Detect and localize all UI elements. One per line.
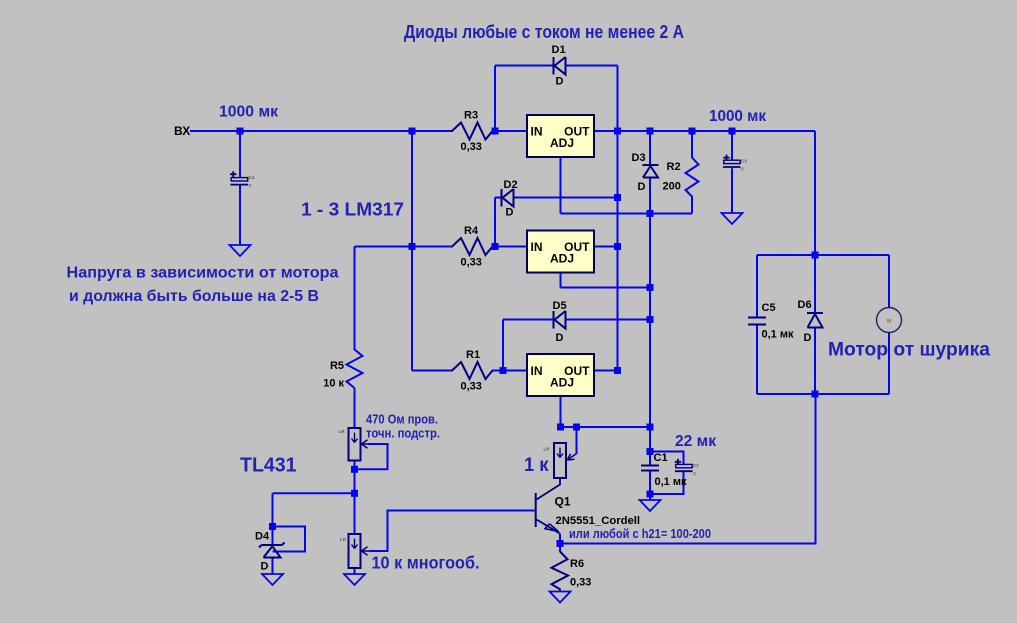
capacitor C4 electrolytic symbol bbox=[230, 171, 248, 184]
wire D2 to OUT bus bbox=[514, 197, 618, 199]
junction node U2 IN bbox=[492, 243, 499, 250]
junction node C3 top bbox=[729, 128, 736, 135]
wire U2 ADJ drop bbox=[560, 272, 562, 288]
svg-text:C3: C3 bbox=[741, 159, 747, 164]
diode D2 bbox=[502, 189, 514, 207]
junction node C1 top bbox=[647, 448, 654, 455]
junction node motor top bbox=[812, 252, 819, 259]
svg-text:точн. подстр.: точн. подстр. bbox=[366, 427, 440, 441]
junction node BX cap tap bbox=[237, 128, 244, 135]
svg-text:D: D bbox=[261, 561, 269, 573]
wire U3 ADJ drop bbox=[560, 396, 562, 428]
svg-text:D5: D5 bbox=[553, 300, 567, 312]
svg-text:D3: D3 bbox=[632, 152, 646, 164]
ground (D4) bbox=[262, 574, 283, 585]
junction node D5 anode bbox=[647, 316, 654, 323]
svg-text:C2: C2 bbox=[693, 463, 699, 468]
wire R2 top lead bbox=[691, 131, 693, 158]
capacitor C2 electrolytic symbol (22uF) bbox=[675, 459, 693, 471]
junction node D2 anode bbox=[614, 194, 621, 201]
wire D5 to ADJ bus bbox=[566, 319, 651, 321]
wire R4 row left bbox=[412, 246, 453, 248]
svg-text:200: 200 bbox=[663, 181, 681, 193]
svg-text:D6: D6 bbox=[798, 299, 812, 311]
svg-text:470 Ом пров.: 470 Ом пров. bbox=[366, 413, 438, 427]
svg-text:0,33: 0,33 bbox=[570, 577, 591, 589]
junction node motor bottom bbox=[812, 391, 819, 398]
wire input rail left (BX to R3) bbox=[190, 130, 453, 132]
svg-text:D: D bbox=[556, 332, 564, 344]
svg-text:или любой с h21= 100-200: или любой с h21= 100-200 bbox=[569, 527, 711, 541]
svg-text:1 - 3 LM317: 1 - 3 LM317 bbox=[301, 200, 404, 220]
junction node feed bus row2 bbox=[409, 243, 416, 250]
svg-text:10 к многооб.: 10 к многооб. bbox=[372, 553, 480, 573]
wire U2 OUT stub bbox=[594, 246, 618, 248]
resistor R2 (blue) bbox=[686, 158, 699, 200]
junction node U3 IN bbox=[500, 367, 507, 374]
junction node ADJ1/R2 bbox=[647, 210, 654, 217]
svg-text:ВХ: ВХ bbox=[174, 124, 190, 138]
svg-text:ADJ: ADJ bbox=[550, 136, 574, 150]
wire TL431 branch drop bbox=[272, 493, 274, 545]
svg-text:IN: IN bbox=[531, 125, 543, 139]
capacitor C5 plates bbox=[748, 318, 766, 325]
wire TL431 branch left bbox=[273, 492, 355, 494]
wire ADJ1 row to R2 bottom bbox=[561, 213, 693, 215]
svg-text:ADJ: ADJ bbox=[550, 376, 574, 390]
svg-text:IN: IN bbox=[531, 240, 543, 254]
junction node ADJ bus / C row bbox=[647, 424, 654, 431]
wire P1 bottom bus down to pot P2 bbox=[354, 461, 356, 535]
resistor R5 (blue) bbox=[347, 350, 363, 389]
wire Q1 emitter to node bbox=[559, 534, 561, 553]
transistor Q1 emitter arrowhead bbox=[545, 524, 559, 532]
svg-text:1000 мк: 1000 мк bbox=[709, 108, 766, 125]
wire R4 to U2 IN bbox=[492, 246, 527, 248]
wire C3 output cap top lead bbox=[731, 131, 733, 160]
svg-text:0,33: 0,33 bbox=[461, 381, 482, 393]
wire P2 bottom to ground bbox=[354, 568, 356, 574]
wire D4 ref loop bbox=[273, 527, 306, 552]
svg-text:IN: IN bbox=[531, 364, 543, 378]
svg-text:LR: LR bbox=[340, 537, 347, 542]
svg-text:TL431: TL431 bbox=[240, 454, 297, 477]
svg-text:D: D bbox=[556, 76, 564, 88]
wire C2 cap 22uF loop top bbox=[650, 452, 684, 465]
svg-text:R2: R2 bbox=[667, 161, 681, 173]
svg-text:Диоды любые с током не менее 2: Диоды любые с током не менее 2 А bbox=[404, 22, 684, 42]
svg-text:0,33: 0,33 bbox=[461, 257, 482, 269]
svg-text:Мотор от шурика: Мотор от шурика bbox=[828, 339, 990, 361]
capacitor C3 electrolytic symbol (1000uF out) bbox=[723, 155, 741, 167]
wire vertical feed bus x=412 bbox=[411, 131, 413, 371]
svg-text:1 к: 1 к bbox=[524, 454, 549, 476]
diode D3 bbox=[643, 165, 659, 178]
transistor Q1 collector bbox=[537, 478, 561, 500]
wire R6 to ground bbox=[559, 590, 561, 593]
svg-text:D2: D2 bbox=[504, 179, 518, 191]
junction node ADJ3 bbox=[557, 424, 564, 431]
wire R1 row left bbox=[412, 370, 453, 372]
resistor R4 bbox=[452, 238, 493, 255]
potentiometer P1 470 Ohm bbox=[349, 428, 370, 461]
resistor R3 bbox=[452, 123, 493, 140]
capacitor C1 plates bbox=[641, 466, 659, 471]
wire D1 loop left riser bbox=[494, 66, 496, 132]
wire D2 riser bbox=[494, 198, 496, 247]
ground (C1/C2) bbox=[640, 500, 661, 511]
wire P1 wiper loop bbox=[355, 444, 388, 469]
wire motor M1 bottom lead bbox=[888, 333, 890, 395]
svg-text:D: D bbox=[506, 207, 514, 219]
wire R5 top row bbox=[355, 246, 413, 248]
svg-text:C4: C4 bbox=[249, 175, 255, 180]
svg-text:LR: LR bbox=[544, 447, 551, 452]
wire D3 top lead bbox=[649, 131, 651, 165]
svg-text:2N5551_Cordell: 2N5551_Cordell bbox=[556, 515, 641, 527]
svg-text:R3: R3 bbox=[464, 110, 478, 122]
svg-text:D: D bbox=[804, 332, 812, 344]
wire motor bottom rail bbox=[757, 393, 889, 395]
svg-text:D: D bbox=[638, 181, 646, 193]
wire ADJ bus x=650 bbox=[649, 178, 651, 466]
junction node Q1 emitter bbox=[557, 540, 564, 547]
zener TL431 D4 bbox=[259, 543, 285, 558]
svg-text:0,1 мк: 0,1 мк bbox=[762, 329, 794, 341]
resistor R1 bbox=[452, 362, 493, 379]
wire D1 cathode-side bbox=[566, 65, 618, 67]
wire C4 bottom to ground bbox=[239, 186, 241, 246]
wire OUT bus x=617.5 bbox=[617, 66, 619, 371]
wire D6 top lead bbox=[814, 255, 816, 313]
ground (C3 output) bbox=[722, 213, 743, 224]
wire C4 input cap top lead bbox=[239, 131, 241, 177]
transistor Q1 emitter bbox=[537, 520, 560, 534]
wire U1 ADJ drop bbox=[560, 157, 562, 214]
svg-text:Напруга в зависимости от мотор: Напруга в зависимости от мотора bbox=[67, 265, 339, 282]
svg-text:и должна быть больше на 2-5 В: и должна быть больше на 2-5 В bbox=[69, 288, 319, 305]
wire motor top rail bbox=[757, 254, 889, 256]
svg-text:C1: C1 bbox=[654, 452, 668, 464]
wire D1 anode-side bbox=[495, 65, 554, 67]
junction node D4 top bbox=[269, 523, 276, 530]
wire C1 bottom to ground bbox=[649, 471, 651, 501]
wire R5 to pot P1 bbox=[354, 388, 356, 428]
svg-text:0,1 мк: 0,1 мк bbox=[655, 476, 687, 488]
svg-text:R1: R1 bbox=[466, 349, 480, 361]
ground (P2) bbox=[344, 574, 365, 585]
svg-text:22 мк: 22 мк bbox=[675, 433, 716, 450]
diode D1 bbox=[554, 57, 566, 75]
wire R5 top lead bbox=[354, 247, 356, 351]
wire C3 bottom to ground bbox=[731, 168, 733, 213]
wire P3 wiper riser bbox=[576, 427, 578, 454]
wire D4 to ground bbox=[272, 558, 274, 575]
wire P2 wiper loop to Q1 base bbox=[370, 511, 535, 552]
regulator U1 LM317 bbox=[527, 115, 594, 157]
motor M1 bbox=[877, 308, 902, 333]
transistor Q1 base bar bbox=[535, 493, 537, 527]
svg-text:R6: R6 bbox=[570, 558, 584, 570]
wire ADJ3 row to ADJ bus bbox=[561, 426, 651, 428]
wire R2 bottom lead bbox=[691, 199, 693, 214]
svg-text:ADJ: ADJ bbox=[550, 252, 574, 266]
junction node U1 OUT bbox=[614, 128, 621, 135]
wire C5 top lead bbox=[756, 255, 758, 317]
svg-text:0,33: 0,33 bbox=[461, 141, 482, 153]
wire D5 riser bbox=[502, 320, 504, 371]
junction node U1 IN bbox=[492, 128, 499, 135]
potentiometer P2 10k bbox=[349, 534, 371, 568]
wire C2 cap 22uF loop bottom bbox=[650, 471, 684, 494]
svg-text:м: м bbox=[887, 319, 892, 325]
junction node U2 OUT bbox=[614, 243, 621, 250]
svg-text:1000 мк: 1000 мк bbox=[219, 104, 278, 121]
wire ADJ2 row to ADJ bus bbox=[561, 287, 651, 289]
junction node P3 wiper tie bbox=[573, 424, 580, 431]
wire R3 to LM317 U1 IN bbox=[492, 130, 527, 132]
regulator U3 LM317 bbox=[527, 354, 594, 396]
junction node P1 bottom bbox=[351, 466, 358, 473]
svg-text:D4: D4 bbox=[255, 531, 270, 543]
ground (R6) bbox=[550, 592, 571, 603]
junction node C1 bottom bbox=[647, 491, 654, 498]
diode D6 bbox=[807, 313, 823, 328]
potentiometer P3 1k bbox=[554, 443, 577, 478]
ground (C4 input) bbox=[230, 245, 251, 256]
wire R1 to U3 IN bbox=[492, 370, 527, 372]
wire right rail drop to motor top bbox=[814, 131, 816, 255]
wire U3 OUT stub bbox=[594, 370, 618, 372]
wire D5 left stub bbox=[503, 319, 554, 321]
diode D5 bbox=[554, 311, 566, 329]
wire D6 bottom lead bbox=[814, 328, 816, 395]
regulator U2 LM317 bbox=[527, 231, 594, 273]
resistor R6 bbox=[552, 552, 569, 590]
svg-text:D1: D1 bbox=[552, 44, 566, 56]
wire U1 OUT rail to motor corner bbox=[594, 130, 815, 132]
wire motor M1 top lead bbox=[888, 255, 890, 308]
svg-text:LR: LR bbox=[339, 429, 346, 434]
svg-text:R5: R5 bbox=[330, 360, 344, 372]
junction node feed bus row1 bbox=[409, 128, 416, 135]
junction node U3 OUT bbox=[614, 367, 621, 374]
junction node ADJ bus top bbox=[647, 128, 654, 135]
wire emitter node to motor return bbox=[560, 394, 816, 544]
svg-text:10 к: 10 к bbox=[323, 378, 344, 390]
junction node R2 top bbox=[689, 128, 696, 135]
svg-text:Q1: Q1 bbox=[555, 495, 571, 509]
junction node ADJ2 bbox=[647, 284, 654, 291]
svg-text:C5: C5 bbox=[762, 302, 776, 314]
svg-text:R4: R4 bbox=[464, 225, 479, 237]
junction node TL431 tap bbox=[351, 490, 358, 497]
wire D2 left stub bbox=[495, 197, 502, 199]
wire C5 bottom lead bbox=[756, 325, 758, 394]
